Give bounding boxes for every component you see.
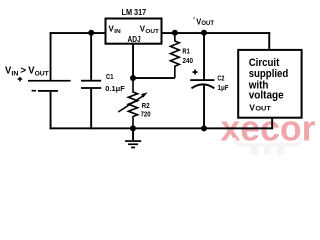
potentiometer R2 [118,78,147,129]
junction node: C1 tap [88,30,94,36]
label C1 0.1uF [105,72,125,93]
svg-text:C2: C2 [217,74,224,83]
resistor R1 [170,33,179,78]
wire: C2 top stem [203,33,205,80]
regulator U1 LM317 [106,7,162,44]
svg-text:R1: R1 [182,46,189,55]
wire: battery top stem [50,32,52,80]
svg-text:720: 720 [141,110,151,119]
wire: C1 top stem [90,33,92,80]
wire: top rail right segment [162,32,271,34]
wire: C2 bottom stem [203,86,205,130]
label R1 240 [182,46,193,65]
wire: ADJ stem [132,45,134,78]
wire: ground bus [50,127,274,129]
junction node: R1 tap [172,30,178,36]
svg-text:>: > [20,66,26,77]
wire: R1 bottom to ADJ [133,77,175,79]
svg-text:LM 317: LM 317 [122,7,147,17]
svg-text:OUT: OUT [255,106,271,112]
svg-text:supplied: supplied [249,68,289,80]
label C2 1uF [217,74,228,92]
wire: top rail left segment [50,32,106,34]
label VIN > VOUT [5,66,49,78]
svg-text:240: 240 [183,56,194,65]
svg-text:IN: IN [114,29,121,35]
junction node: VOUT tap [201,30,207,36]
watermark xecor [221,108,316,155]
ground [125,128,141,148]
svg-text:voltage: voltage [249,89,284,101]
junction node: C2 bottom tap [201,125,207,131]
junction node: ADJ [130,75,136,81]
wire: battery bottom stem [50,92,52,129]
load box: circuit supplied with voltage VOUT [238,50,301,118]
wire: load bottom stem [271,118,273,130]
svg-text:0.1μF: 0.1μF [105,84,125,93]
svg-text:OUT: OUT [145,29,159,35]
capacitor C2 polarized [190,70,214,89]
svg-text:OUT: OUT [201,21,214,27]
wire: rail to load corner [268,32,270,49]
junction node: ground [130,125,136,131]
label R2 720 [141,101,151,119]
battery VIN source [18,77,71,92]
label VOUT node [194,16,215,27]
svg-text:1μF: 1μF [218,83,229,92]
svg-text:C1: C1 [106,72,114,81]
wire: C1 bottom stem [90,89,92,129]
svg-text:IN: IN [11,70,18,77]
capacitor C1 [81,80,101,89]
svg-text:OUT: OUT [35,70,49,77]
svg-text:ADJ: ADJ [128,35,141,44]
